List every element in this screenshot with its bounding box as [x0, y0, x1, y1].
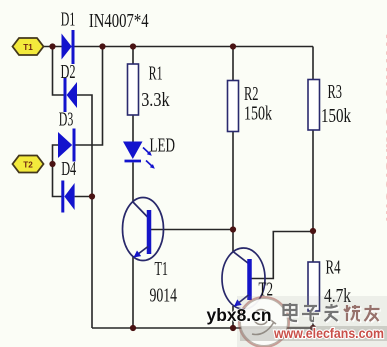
svg-text:150k: 150k [321, 106, 351, 127]
svg-text:R4: R4 [326, 258, 341, 279]
wire top rail [44, 46, 314, 48]
node junction dot D4 anode rail [89, 193, 95, 199]
node junction dot R3 R4 T2 base [310, 228, 316, 234]
wire T2 tag up to D3 anode [53, 145, 59, 164]
diode D3 [58, 129, 74, 162]
wire T1 emitter to bottom rail [132, 256, 134, 328]
resistor R3 [308, 80, 320, 131]
node junction dot top rail at T1 tag [49, 43, 55, 49]
node junction dot T1 base / R2 / T2 collector [230, 226, 236, 232]
watermark CJK char 2 [302, 306, 319, 321]
wire R4 bottom lead [312, 311, 314, 328]
resistor R4 [308, 262, 320, 311]
svg-text:IN4007*4: IN4007*4 [89, 11, 149, 32]
transistor T1 [123, 198, 164, 261]
node junction dot top rail D3 riser [99, 43, 105, 49]
wire R3 drop from top rail [312, 47, 314, 80]
node junction dot top rail R1 [130, 43, 136, 49]
diode D4 [63, 181, 75, 213]
svg-text:150k: 150k [244, 104, 272, 125]
svg-text:ybx8.cn: ybx8.cn [207, 305, 272, 325]
watermark CJK char 4 [344, 305, 360, 321]
resistor R1 [128, 64, 139, 115]
svg-text:T1: T1 [23, 43, 33, 52]
wire R3 bottom to R4 top [312, 130, 314, 262]
svg-text:R2: R2 [244, 84, 259, 105]
svg-text:R3: R3 [328, 82, 343, 103]
wire T2 tag down to D4 cathode [53, 164, 63, 197]
diode D1 [62, 30, 74, 64]
wire LED cathode to T1 collector [132, 162, 134, 202]
watermark CJK char 1 [284, 303, 298, 321]
node junction dot top rail R2 [230, 43, 236, 49]
svg-text:D2: D2 [61, 62, 76, 83]
watermark CJK char 5 [365, 305, 380, 321]
resistor R2 [228, 81, 239, 132]
wire D2 anode to negative rail down [77, 95, 92, 328]
wire R1 top lead [132, 47, 134, 65]
LED emission arrow 2 [146, 161, 155, 169]
LED emission arrow 1 [143, 148, 152, 156]
svg-text:www.elecfans.com: www.elecfans.com [384, 30, 387, 222]
svg-text:D1: D1 [61, 10, 76, 31]
svg-text:LED: LED [150, 136, 176, 157]
svg-text:9014: 9014 [150, 286, 178, 307]
wire T1 tag to D2 cathode [53, 47, 66, 96]
watermark gray bar under url [240, 326, 387, 341]
watermark gray wash bottom right [237, 296, 387, 347]
wire T2 emitter to bottom rail [232, 306, 234, 328]
LED D5 [123, 142, 143, 162]
watermark stamp white circle [241, 299, 288, 346]
wire R2 top lead [232, 47, 234, 81]
svg-text:T1: T1 [155, 259, 169, 280]
svg-text:R1: R1 [149, 64, 163, 85]
diode D2 [65, 78, 77, 112]
svg-text:3.3k: 3.3k [141, 90, 170, 111]
svg-text:D4: D4 [61, 159, 76, 180]
watermark CJK emboss underlay [285, 304, 381, 322]
watermark stamp doodle [252, 310, 276, 335]
svg-text:T2: T2 [23, 161, 33, 170]
wire R1 bottom to LED [132, 115, 134, 142]
node junction dot bottom rail T1 emitter [130, 325, 136, 331]
node junction dot bottom rail T2 emitter [230, 325, 236, 331]
watermark stamp ring [239, 297, 289, 347]
wire D4 anode to negative rail [75, 196, 92, 198]
terminal tag T1 [13, 38, 44, 55]
wire D3 cathode riser to top rail [74, 47, 103, 146]
wire T2 base L-link to R3/R4 node [252, 232, 314, 279]
wire T1 base to node B [151, 229, 234, 231]
terminal tag T2 [13, 156, 44, 173]
svg-text:www.elecfans.com: www.elecfans.com [273, 326, 384, 341]
node junction dot T2 tag [49, 161, 55, 167]
wire bottom rail [92, 327, 313, 329]
svg-text:D3: D3 [59, 110, 74, 131]
watermark CJK char 3 [325, 304, 339, 321]
node junction dot bottom rail R4 [310, 325, 316, 331]
transistor T2 [222, 248, 265, 309]
wire R2 bottom to T2 collector [232, 132, 234, 253]
